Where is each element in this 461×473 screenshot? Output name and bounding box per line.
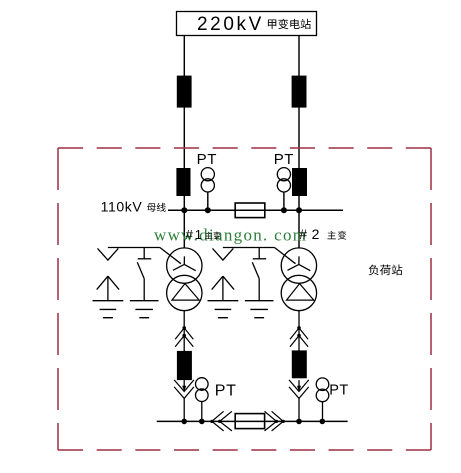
svg-text:#2: #2 — [299, 226, 324, 242]
node bus-PT1 — [205, 207, 211, 213]
PT1 label — [197, 151, 217, 168]
svg-text:#1: #1 — [186, 227, 204, 242]
ground under earth switch (group 2) — [245, 301, 274, 318]
label jia-bian-dian-zhan — [268, 19, 311, 29]
svg-text:110kV: 110kV — [101, 199, 143, 215]
label #1 main transformer — [186, 227, 221, 242]
bus LV — [157, 420, 348, 422]
label 110kV — [101, 199, 143, 215]
surge arrester arrow (group 2) — [212, 276, 234, 301]
breaker B2 right top — [292, 76, 307, 108]
watermark www.diangon.com — [154, 226, 307, 245]
earth switch (group 2) — [252, 248, 266, 301]
node LV-feeder1 — [181, 419, 187, 425]
bus-tie left drawout chevrons — [210, 411, 232, 431]
wire arrester branch (group 1) — [108, 247, 160, 249]
PT3 label — [215, 382, 237, 399]
breaker B1 left top — [177, 76, 192, 108]
load-station boundary (dashed) — [58, 148, 431, 450]
substation box 220kV — [177, 12, 317, 36]
wire breaker to LV bus feeder1 — [183, 398, 185, 421]
PT2 voltage transformer — [277, 168, 290, 192]
PT4 voltage transformer — [316, 378, 329, 402]
label 220kV — [197, 14, 264, 35]
delta symbol T1 — [172, 284, 199, 301]
svg-text:PT: PT — [215, 382, 237, 399]
transformer primary winding T1 — [167, 248, 202, 283]
node LV-PT3 — [199, 419, 205, 425]
surge arrester gap V (group 1) — [98, 248, 119, 260]
node bus-PT2 — [281, 207, 287, 213]
svg-text:220kV: 220kV — [197, 14, 264, 35]
feed diagonal T2 — [275, 248, 296, 264]
fuse F1 on bus — [235, 203, 265, 218]
ground under arrester (group 1) — [93, 301, 124, 318]
feed diagonal T1 — [160, 248, 181, 264]
svg-text:www.diangon. com: www.diangon. com — [154, 226, 307, 245]
surge arrester arrow (group 1) — [97, 276, 119, 301]
transformer secondary winding T2 — [281, 275, 316, 310]
svg-text:PT: PT — [274, 151, 294, 168]
PT3 voltage transformer — [196, 378, 209, 402]
surge arrester gap V (group 2) — [213, 248, 234, 260]
wire PT2 to bus — [283, 192, 285, 210]
drawout contact chevrons (bottom) feeder2 — [289, 380, 309, 399]
breaker B3 left incoming — [176, 168, 190, 196]
wire PT4 to LV bus — [322, 402, 324, 422]
transformer secondary winding T1 — [167, 275, 202, 310]
label #2 main transformer — [299, 226, 346, 242]
drawout contact chevrons (top) feeder1 — [175, 326, 193, 347]
svg-text:PT: PT — [197, 151, 217, 168]
ground under arrester (group 2) — [208, 301, 239, 318]
svg-text:PT: PT — [329, 383, 348, 399]
label mu-xian — [147, 203, 166, 212]
node LV-PT4 — [320, 419, 326, 425]
PT1 voltage transformer — [201, 168, 214, 192]
wire PT3 to LV bus — [201, 402, 203, 422]
wire transformer LV lead feeder1 — [183, 310, 185, 351]
PT4 label — [329, 383, 348, 399]
bus-tie right drawout chevrons — [265, 411, 285, 431]
transformer primary winding T2 — [281, 248, 316, 283]
wire arrester branch (group 2) — [223, 247, 275, 249]
node bus-left-feeder — [181, 207, 187, 213]
breaker (filled) feeder1 — [177, 351, 192, 380]
bus-tie fuse — [235, 414, 264, 429]
bus 110kV — [168, 209, 343, 211]
wye symbol T2 — [288, 256, 311, 270]
earth switch (group 1) — [137, 248, 151, 301]
ground under earth switch (group 1) — [130, 301, 159, 318]
node LV-feeder2 — [296, 419, 302, 425]
breaker B4 right incoming — [292, 168, 307, 196]
node bus-right-feeder — [296, 207, 302, 213]
PT2 label — [274, 151, 294, 168]
wire transformer LV lead feeder2 — [298, 310, 300, 351]
delta symbol T2 — [287, 284, 314, 301]
drawout contact chevrons (bottom) feeder1 — [174, 380, 194, 399]
wire breaker to LV bus feeder2 — [298, 398, 300, 421]
label fu-he-zhan (load station) — [369, 265, 403, 276]
wire right feeder — [298, 36, 300, 249]
breaker (filled) feeder2 — [292, 350, 307, 378]
wye symbol T1 — [173, 256, 196, 270]
drawout contact chevrons (top) feeder2 — [290, 326, 308, 347]
wire left feeder — [183, 36, 185, 249]
wire PT1 to bus — [207, 192, 209, 210]
